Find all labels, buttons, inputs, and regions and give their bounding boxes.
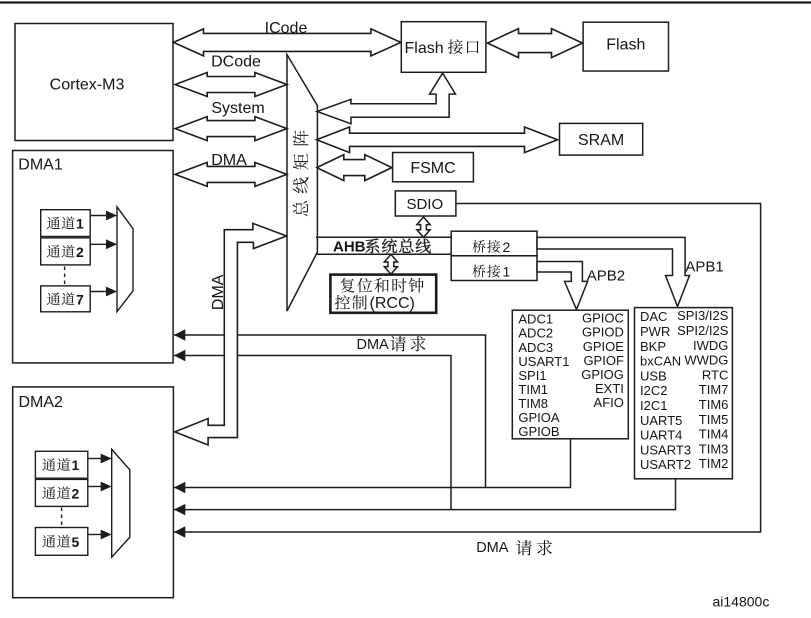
arrowhead channel into mux (DMA1) bbox=[106, 239, 117, 249]
mux trapezoid DMA2 bbox=[112, 449, 130, 557]
svg-text:DMA: DMA bbox=[210, 274, 227, 310]
label 通道1 DMA2 bbox=[42, 458, 55, 471]
wire channel to mux (DMA1) bbox=[90, 243, 106, 245]
label DMA (rotated, on DMA2 bus) bbox=[210, 274, 227, 310]
svg-text:DMA2: DMA2 bbox=[19, 394, 64, 411]
svg-text:ADC3: ADC3 bbox=[518, 340, 553, 355]
channel box 通道2 (DMA1) bbox=[41, 238, 90, 265]
svg-text:1: 1 bbox=[503, 264, 511, 280]
label 控制(RCC) bbox=[335, 295, 350, 310]
svg-text:APB1: APB1 bbox=[685, 259, 723, 276]
arrowhead DMA request into DMA2 (from APB1) bbox=[174, 504, 185, 515]
svg-text:PWR: PWR bbox=[640, 324, 670, 339]
svg-text:Cortex-M3: Cortex-M3 bbox=[50, 76, 125, 93]
svg-text:GPIOA: GPIOA bbox=[518, 410, 560, 425]
svg-text:TIM3: TIM3 bbox=[699, 441, 729, 456]
bus matrix to Flash interface hollow arrow (bent) bbox=[317, 73, 455, 124]
dashed ellipsis between 通道2 and 通道5 (DMA2) bbox=[61, 508, 63, 527]
wire channel to mux (DMA2) bbox=[88, 534, 101, 536]
label 通道2 DMA2 bbox=[42, 486, 55, 499]
arrowhead DMA request into DMA1 (upper) bbox=[174, 329, 185, 340]
block FSMC bbox=[393, 153, 474, 182]
bus bridge2 to APB1 hollow arrow bbox=[537, 237, 690, 306]
channel box 通道1 (DMA1) bbox=[41, 210, 90, 237]
wire channel to mux (DMA1) bbox=[90, 291, 106, 293]
bus Flash interface to Flash double arrow bbox=[488, 29, 583, 58]
bus DMA2 bidirectional bent arrow to bus matrix bbox=[175, 223, 287, 445]
frame top rule bbox=[0, 1, 811, 3]
wire DMA request from APB1 peripherals to DMA2 bbox=[174, 479, 676, 510]
svg-text:2: 2 bbox=[503, 239, 511, 255]
svg-text:(RCC): (RCC) bbox=[370, 295, 415, 312]
svg-text:UART5: UART5 bbox=[640, 413, 682, 428]
svg-text:DMA: DMA bbox=[357, 337, 390, 353]
svg-text:SPI3/I2S: SPI3/I2S bbox=[677, 308, 729, 323]
wire AHB system bus top bbox=[316, 236, 451, 238]
bus matrix to FSMC double arrow bbox=[317, 155, 392, 181]
arrowhead channel into mux (DMA1) bbox=[106, 211, 117, 221]
label 桥接2 bbox=[472, 240, 485, 253]
svg-text:TIM8: TIM8 bbox=[518, 396, 548, 411]
svg-text:USART1: USART1 bbox=[518, 354, 569, 369]
wire channel to mux (DMA1) bbox=[90, 215, 106, 217]
svg-text:USB: USB bbox=[640, 368, 667, 383]
block APB2 peripherals bbox=[512, 310, 628, 439]
block bridge 桥接2 bbox=[451, 231, 537, 256]
bus bridge1 to APB2 hollow arrow bbox=[537, 262, 588, 310]
block DMA1 bbox=[13, 151, 174, 363]
svg-text:Flash: Flash bbox=[606, 36, 645, 53]
svg-text:TIM7: TIM7 bbox=[699, 382, 729, 397]
svg-text:AHB: AHB bbox=[333, 238, 366, 255]
arrowhead DMA request into DMA2 (from APB2) bbox=[174, 482, 185, 493]
channel box 通道5 (DMA2) bbox=[35, 528, 87, 556]
svg-text:GPIOG: GPIOG bbox=[581, 367, 624, 382]
svg-text:RTC: RTC bbox=[702, 367, 728, 382]
svg-text:ADC1: ADC1 bbox=[518, 312, 553, 327]
bus DMA1 double arrow bbox=[175, 162, 287, 186]
label 桥接1 bbox=[472, 265, 485, 278]
svg-text:DMA: DMA bbox=[211, 152, 247, 169]
block Cortex-M3 bbox=[15, 24, 173, 141]
wire DMA request from SDIO to DMA2 (right-side loop) bbox=[174, 204, 761, 533]
channel box 通道7 (DMA1) bbox=[41, 286, 90, 312]
channel box 通道2 (DMA2) bbox=[35, 479, 87, 506]
block bridge 桥接1 bbox=[451, 256, 537, 281]
label bus matrix 总线矩阵 (rotated) bbox=[293, 130, 309, 216]
svg-text:DAC: DAC bbox=[640, 309, 667, 324]
label 通道1 bbox=[47, 217, 60, 230]
svg-text:1: 1 bbox=[76, 216, 84, 232]
svg-text:IWDG: IWDG bbox=[693, 338, 728, 353]
svg-text:DMA: DMA bbox=[476, 540, 509, 556]
label 通道2 bbox=[47, 245, 60, 258]
svg-text:ADC2: ADC2 bbox=[518, 326, 553, 341]
svg-text:EXTI: EXTI bbox=[595, 381, 624, 396]
svg-text:GPIOD: GPIOD bbox=[582, 325, 624, 340]
arrowhead channel into mux (DMA2) bbox=[101, 530, 112, 540]
block RCC 复位和时钟控制 bbox=[330, 275, 436, 313]
svg-text:TIM1: TIM1 bbox=[518, 382, 548, 397]
svg-text:TIM4: TIM4 bbox=[699, 427, 729, 442]
svg-text:USART2: USART2 bbox=[640, 457, 691, 472]
svg-text:GPIOF: GPIOF bbox=[583, 353, 624, 368]
svg-text:APB2: APB2 bbox=[587, 268, 625, 285]
svg-text:AFIO: AFIO bbox=[594, 395, 624, 410]
svg-text:2: 2 bbox=[76, 244, 84, 260]
svg-text:GPIOC: GPIOC bbox=[582, 311, 624, 326]
svg-text:ICode: ICode bbox=[265, 20, 308, 37]
wire DMA request branch to DMA1 (junction at 485.5,487.5) bbox=[174, 335, 486, 488]
wire AHB system bus bottom bbox=[316, 253, 451, 255]
block Flash bbox=[583, 22, 668, 71]
arrowhead DMA request into DMA1 (lower) bbox=[174, 350, 185, 361]
svg-text:bxCAN: bxCAN bbox=[640, 354, 681, 369]
bus ICode double arrow bbox=[174, 29, 401, 56]
svg-text:SRAM: SRAM bbox=[578, 132, 624, 149]
wire channel to mux (DMA2) bbox=[88, 458, 101, 460]
label 通道7 bbox=[47, 292, 60, 305]
svg-text:UART4: UART4 bbox=[640, 428, 682, 443]
label 复位和时钟 bbox=[340, 278, 354, 293]
arrowhead channel into mux (DMA1) bbox=[106, 287, 117, 297]
bus DCode double arrow bbox=[175, 73, 287, 97]
svg-text:7: 7 bbox=[76, 291, 84, 307]
svg-text:DMA1: DMA1 bbox=[18, 157, 63, 174]
block APB1 peripherals bbox=[635, 308, 733, 479]
arrowhead DMA request into DMA2 (from SDIO loop) bbox=[174, 526, 185, 537]
svg-text:USART3: USART3 bbox=[640, 442, 691, 457]
mux trapezoid DMA1 bbox=[117, 207, 133, 312]
svg-text:FSMC: FSMC bbox=[410, 160, 455, 177]
svg-text:SPI2/I2S: SPI2/I2S bbox=[677, 323, 729, 338]
svg-text:DCode: DCode bbox=[211, 53, 261, 70]
block DMA2 bbox=[13, 387, 174, 598]
svg-text:BKP: BKP bbox=[640, 339, 666, 354]
dashed ellipsis between 通道2 and 通道7 bbox=[64, 267, 66, 286]
svg-text:5: 5 bbox=[72, 534, 80, 550]
label 通道5 DMA2 bbox=[42, 535, 55, 548]
svg-text:GPIOB: GPIOB bbox=[518, 424, 559, 439]
arrowhead channel into mux (DMA2) bbox=[101, 482, 112, 492]
svg-text:SPI1: SPI1 bbox=[518, 368, 546, 383]
svg-text:I2C2: I2C2 bbox=[640, 383, 667, 398]
wire DMA request branch to DMA1 (junction at 451,509.6) bbox=[174, 356, 451, 510]
svg-text:ai14800c: ai14800c bbox=[713, 594, 770, 610]
svg-text:Flash: Flash bbox=[405, 40, 444, 57]
svg-text:WWDG: WWDG bbox=[684, 353, 728, 368]
block SDIO bbox=[395, 191, 456, 216]
svg-text:TIM5: TIM5 bbox=[699, 412, 729, 427]
svg-text:SDIO: SDIO bbox=[406, 196, 443, 213]
svg-text:TIM2: TIM2 bbox=[699, 456, 729, 471]
svg-text:2: 2 bbox=[72, 485, 80, 501]
svg-text:System: System bbox=[211, 100, 264, 117]
block SRAM bbox=[560, 123, 643, 155]
bus System double arrow bbox=[175, 117, 287, 141]
svg-text:1: 1 bbox=[72, 457, 80, 473]
bus SDIO to AHB double arrow (vertical) bbox=[417, 217, 430, 237]
arrowhead channel into mux (DMA2) bbox=[101, 454, 112, 464]
svg-text:GPIOE: GPIOE bbox=[583, 339, 625, 354]
bus AHB to RCC double arrow (vertical) bbox=[384, 254, 397, 274]
wire DMA request from APB2 peripherals to DMA2 bbox=[174, 439, 571, 488]
channel box 通道1 (DMA2) bbox=[35, 451, 87, 478]
bus matrix trapezoid bbox=[287, 55, 317, 311]
wire channel to mux (DMA2) bbox=[88, 486, 101, 488]
block Flash interface 接口 bbox=[401, 22, 486, 73]
svg-text:TIM6: TIM6 bbox=[699, 397, 729, 412]
bus matrix to SRAM double arrow bbox=[317, 127, 558, 153]
svg-text:I2C1: I2C1 bbox=[640, 398, 667, 413]
